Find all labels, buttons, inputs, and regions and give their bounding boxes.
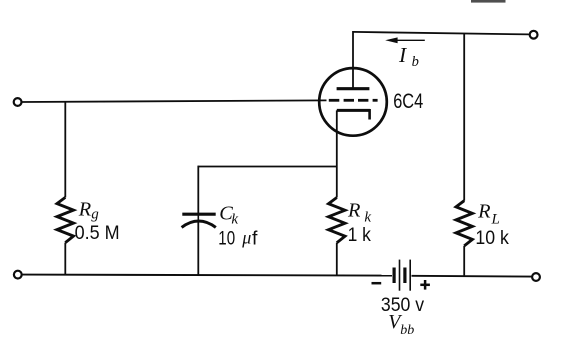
terminal output bottom-right — [532, 273, 540, 281]
terminal output top-right — [530, 31, 538, 39]
triode U1 6C4 envelope — [319, 68, 387, 136]
wire Rg to bottom rail — [64, 243, 66, 275]
wire grid input (left horizontal) — [22, 100, 327, 102]
wire RL branch from top rail — [463, 34, 465, 201]
terminal input bottom-left — [14, 271, 22, 279]
wire RL to bottom rail — [463, 246, 465, 276]
wire cathode lead down — [336, 110, 338, 197]
wire Rk to bottom rail — [336, 243, 338, 276]
wire Rg branch from grid line — [64, 102, 66, 198]
triode cathode — [337, 109, 370, 120]
terminal input top-left — [14, 98, 22, 106]
svg-text:0.5 M: 0.5 M — [75, 222, 120, 244]
label battery minus — [372, 282, 382, 285]
resistor Rg — [57, 197, 74, 242]
current arrow Ib — [385, 37, 425, 43]
triode grid (dashed) — [329, 99, 378, 102]
battery Vbb — [394, 260, 410, 291]
wire bottom (left segment to battery) — [22, 275, 392, 276]
wire Ck top lead — [197, 166, 199, 214]
resistor RL — [456, 201, 472, 246]
wire plate lead (down into tube) — [352, 31, 354, 88]
svg-text:6C4: 6C4 — [393, 89, 423, 113]
wire cathode bypass (junction to Ck) — [198, 166, 336, 168]
svg-text:1 k: 1 k — [348, 224, 372, 246]
wire bottom (battery to output) — [412, 275, 533, 278]
wire Ck bottom lead — [197, 221, 199, 275]
capacitor Ck — [182, 214, 216, 227]
svg-text:10 k: 10 k — [475, 227, 509, 249]
resistor Rk — [329, 198, 346, 243]
wire plate top (B+ rail) — [353, 32, 529, 35]
label battery plus — [420, 280, 430, 290]
triode plate (anode) — [337, 87, 370, 90]
